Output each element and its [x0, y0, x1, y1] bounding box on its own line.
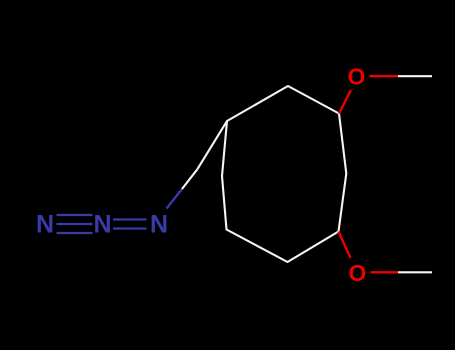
- bond N3-CH2 blue half: [167, 189, 183, 209]
- triple bond N1-N2: [57, 215, 93, 233]
- double bond N2-N3: [113, 220, 147, 229]
- ring cage octagon: [222, 86, 346, 262]
- bond N3-CH2 white half: [182, 169, 197, 189]
- bond O-CH3 top red half: [370, 75, 399, 77]
- bond O-CH3 bottom white half: [398, 271, 432, 273]
- bond O-C5 red: [339, 232, 351, 259]
- svg-text:N: N: [93, 211, 111, 239]
- svg-text:N: N: [36, 211, 54, 239]
- svg-text:O: O: [349, 260, 367, 286]
- bond O-CH3 top white half: [398, 75, 432, 77]
- svg-text:N: N: [150, 211, 168, 239]
- bond CH2-C1: [197, 121, 227, 169]
- svg-text:O: O: [348, 64, 366, 90]
- bond O-C3 red: [339, 90, 351, 113]
- bond O-CH3 bottom red half: [371, 271, 399, 273]
